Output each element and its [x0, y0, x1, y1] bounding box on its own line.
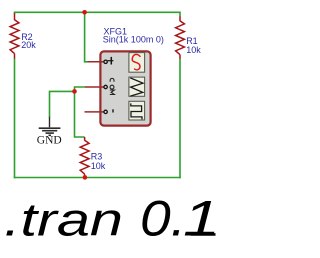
- pin label minus: [112, 109, 114, 112]
- svg-text:.tran: .tran: [4, 194, 123, 246]
- pin circle minus: [104, 110, 107, 113]
- sine button: [129, 53, 145, 73]
- triangle wave icon: [130, 78, 143, 96]
- svg-text:Sin(1k 100m 0): Sin(1k 100m 0): [103, 35, 164, 45]
- pin circle plus: [104, 60, 107, 63]
- wire from top junction to plus pin: [85, 12, 89, 62]
- square wave icon: [131, 103, 142, 119]
- function generator XFG1 body: [100, 51, 150, 125]
- junction top: [82, 10, 87, 15]
- wire top: [15, 12, 181, 16]
- XFG1 pin lead plus: [88, 61, 105, 63]
- ground: [39, 117, 61, 136]
- wire GND branch: [50, 91, 75, 117]
- pin label plus: [108, 57, 114, 65]
- svg-text:20k: 20k: [21, 40, 36, 50]
- pin circle COM: [104, 85, 107, 88]
- junction COM/GND/R3: [72, 89, 77, 94]
- XFG1 pin lead minus: [85, 111, 105, 113]
- svg-text:0.: 0.: [140, 191, 186, 247]
- sine wave icon: [132, 54, 140, 69]
- wire right: [179, 59, 181, 179]
- svg-text:10k: 10k: [91, 161, 106, 171]
- XFG1 pin lead COM: [85, 86, 105, 88]
- resistor R2: [10, 13, 19, 58]
- wire COM to junction: [75, 87, 85, 137]
- svg-text:GND: GND: [37, 135, 62, 147]
- resistor R1: [176, 16, 185, 59]
- wire bottom: [14, 177, 181, 179]
- pin label COM: [110, 78, 115, 94]
- triangle button: [129, 77, 145, 96]
- square button: [129, 101, 145, 120]
- resistor R3: [80, 137, 89, 178]
- svg-text:1: 1: [183, 191, 220, 247]
- svg-text:10k: 10k: [186, 45, 201, 55]
- wire left: [14, 58, 16, 178]
- junction bottom: [83, 175, 88, 180]
